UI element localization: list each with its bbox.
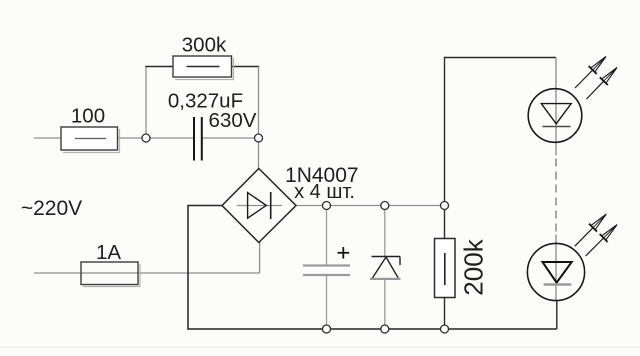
wire node B down to bridge top corner — [258, 138, 260, 169]
resistor 200k — [435, 239, 456, 298]
bridge rectifier 1N4007 x4 — [222, 169, 296, 243]
LED HL1 emission arrow 1 — [575, 57, 606, 89]
wire AC top input — [34, 137, 61, 139]
node A — [142, 134, 150, 142]
resistor 300k — [173, 56, 234, 80]
wire AC bottom from input through fuse to bridge — [34, 272, 260, 274]
scan artifact line — [0, 346, 640, 348]
capacitor 0,327uF 630V — [194, 117, 202, 161]
wire electrolytic cap bottom lead — [326, 275, 328, 329]
wire minus rail vertical — [187, 205, 189, 329]
wire R200k bottom to bus — [444, 298, 446, 330]
svg-text:630V: 630V — [209, 109, 257, 132]
wire R300k right horizontal — [232, 66, 260, 68]
svg-text:300k: 300k — [182, 34, 227, 57]
svg-text:~220V: ~220V — [21, 197, 82, 220]
svg-text:100: 100 — [71, 105, 105, 128]
wire up to bridge bottom corner — [259, 242, 261, 273]
node minus bus / R200k — [441, 325, 449, 333]
node minus bus / zener — [381, 325, 389, 333]
resistor 100 — [61, 127, 120, 153]
wire capacitor to node B — [202, 137, 259, 139]
LED HL2 emission arrow 1 — [575, 214, 607, 246]
wire zener top lead — [384, 206, 386, 257]
capacitor C2 electrolytic — [303, 247, 350, 275]
svg-text:1A: 1A — [96, 241, 121, 264]
wire right vertical from top to R200k — [444, 57, 446, 239]
wire dashed LED string continuation — [555, 159, 557, 235]
fuse 1A — [81, 262, 140, 287]
wire plus bus — [296, 205, 445, 207]
node plus bus / R200k — [441, 202, 449, 210]
wire bridge left corner to minus rail — [188, 205, 222, 207]
wire zener bottom lead — [384, 279, 386, 329]
svg-text:x 4 шт.: x 4 шт. — [294, 181, 355, 203]
svg-text:200k: 200k — [459, 238, 489, 295]
LED HL2 emission arrow 2 — [586, 225, 618, 256]
node B — [255, 134, 263, 142]
wire LED2 vertical — [555, 235, 557, 301]
wire electrolytic cap top lead — [326, 206, 328, 266]
wire R300k right down to node B — [258, 67, 260, 139]
wire LED2 cathode to bottom bus — [556, 301, 558, 329]
wire R300k left horizontal — [145, 66, 173, 68]
wire bottom bus — [187, 328, 557, 330]
wire top right horizontal — [445, 57, 557, 59]
LED HL1 emission arrow 2 — [587, 68, 618, 100]
LED HL2 — [527, 243, 584, 300]
node plus bus / zener — [381, 202, 389, 210]
LED HL1 — [528, 89, 582, 143]
wire LED1 anode drop — [555, 58, 557, 156]
node plus bus / C2 — [323, 202, 331, 210]
node minus bus / C2 — [323, 325, 331, 333]
wire node A up to R300k left — [145, 67, 147, 139]
wire R100 to capacitor — [118, 137, 195, 139]
zener diode VD5 — [370, 257, 401, 280]
